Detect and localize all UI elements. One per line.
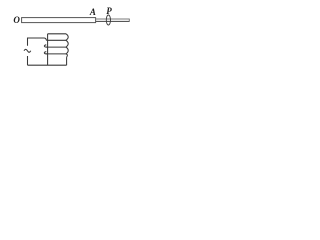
coil top turn line <box>48 33 66 35</box>
rod <box>96 18 130 20</box>
wire bottom rail <box>28 64 67 66</box>
wire left lower stub <box>27 56 29 65</box>
coil turn 1 entry swoop from rail <box>44 38 46 40</box>
coil L left core line <box>47 34 49 65</box>
svg-text:P: P <box>106 6 112 16</box>
coil right vertical <box>66 57 68 65</box>
coil turn line 3 <box>46 46 66 48</box>
coil right bulge 2 <box>66 40 68 47</box>
AC source ~ <box>24 49 31 52</box>
coil turn line 4 <box>46 53 66 55</box>
svg-text:A: A <box>89 7 96 17</box>
tube (closed at O end) <box>22 18 96 23</box>
coil right exit bend to lower right vertical <box>66 54 67 57</box>
coil right bulge 3 <box>66 47 68 54</box>
wire top rail <box>28 38 45 46</box>
svg-text:O: O <box>13 15 20 25</box>
coil turn line 2 <box>46 39 66 41</box>
coil left hook 2 <box>44 45 47 47</box>
coil left hook 3 <box>44 52 47 54</box>
piston P (disc on rod) <box>106 15 110 25</box>
coil right bulge 1 <box>66 34 68 41</box>
